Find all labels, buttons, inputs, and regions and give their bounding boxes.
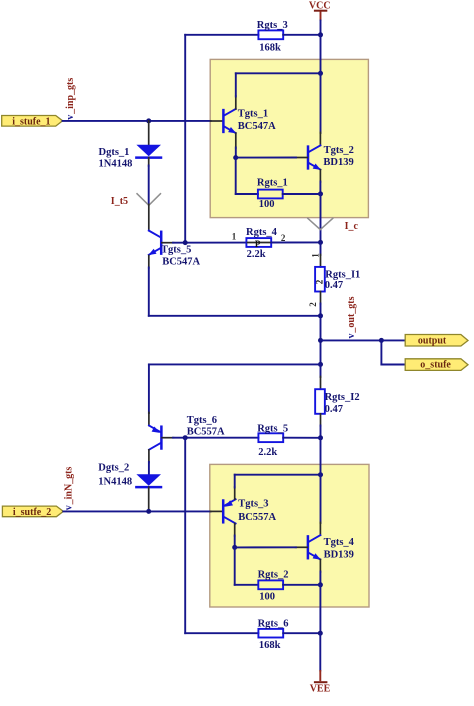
net label v_out_gts: [346, 296, 357, 338]
svg-text:1N4148: 1N4148: [98, 476, 132, 487]
wire: [149, 363, 321, 365]
diode Dgts_1: [99, 121, 162, 170]
svg-text:100: 100: [259, 592, 275, 603]
wire: [235, 133, 237, 148]
wire: [149, 315, 321, 317]
port output: [405, 335, 468, 347]
resistor Rgts_I2: [315, 389, 359, 415]
svg-text:Dgts_2: Dgts_2: [98, 463, 129, 474]
node Rgts_5 tee: [318, 435, 323, 440]
wire: [185, 34, 258, 36]
svg-text:i_stufe_1: i_stufe_1: [12, 116, 50, 127]
svg-text:Rgts_I2: Rgts_I2: [325, 392, 360, 403]
svg-text:BC547A: BC547A: [238, 121, 276, 132]
node input1: [146, 118, 151, 123]
wire: [184, 35, 186, 243]
wire: [148, 205, 150, 231]
wire: [148, 450, 150, 463]
svg-text:Rgts_5: Rgts_5: [257, 423, 288, 434]
svg-text:v: v: [64, 505, 75, 510]
svg-text:BC547A: BC547A: [162, 256, 200, 267]
wire: [320, 304, 322, 316]
highlight box (lower output pair): [210, 464, 369, 607]
node Tgts_4 emitter: [318, 582, 323, 587]
svg-text:Rgts_2: Rgts_2: [258, 569, 289, 580]
svg-text:I_c: I_c: [345, 221, 359, 232]
port i_sutfe_2: [2, 506, 63, 518]
wire: [320, 255, 322, 267]
pin 1 Rgts_I1: [311, 253, 321, 258]
wire: [320, 316, 322, 365]
svg-text:P: P: [255, 239, 261, 249]
resistor Rgts_1: [257, 177, 288, 210]
svg-text:Rgts_6: Rgts_6: [258, 618, 289, 629]
port o_stufe: [405, 359, 468, 371]
node Tgts_1 emitter: [233, 155, 238, 160]
node box2 top: [318, 472, 323, 477]
wire: [320, 73, 322, 133]
node Rgts_I1 bottom: [318, 313, 323, 318]
svg-text:o_stufe: o_stufe: [420, 360, 451, 371]
probe I_t5: [111, 193, 161, 207]
node Tgts_6 base: [183, 435, 188, 440]
wire: [63, 120, 211, 122]
power symbol VEE: [310, 670, 331, 694]
wire: [148, 462, 150, 474]
svg-text:Dgts_1: Dgts_1: [99, 147, 130, 158]
wire: [319, 523, 321, 536]
svg-text:Rgts_3: Rgts_3: [257, 20, 288, 31]
svg-text:0.47: 0.47: [325, 404, 343, 415]
transistor Q Tgts_2 (BD139): [296, 145, 354, 170]
wire: [148, 413, 150, 426]
resistor Rgts_5: [257, 423, 288, 458]
svg-text:168k: 168k: [259, 640, 281, 651]
node VCC rail: [318, 32, 323, 37]
svg-text:v: v: [65, 115, 76, 120]
svg-text:VEE: VEE: [310, 683, 331, 694]
wire: [320, 414, 322, 426]
transistor Q Tgts_4 (BD139): [296, 535, 355, 560]
svg-text:Tgts_3: Tgts_3: [238, 499, 268, 510]
port i_stufe_1: [2, 116, 63, 128]
wire: [236, 72, 321, 74]
svg-text:Tgts_1: Tgts_1: [238, 108, 268, 119]
svg-text:BD139: BD139: [323, 157, 353, 168]
wire: [148, 166, 150, 205]
highlight box (upper output pair): [210, 59, 368, 217]
wire: [234, 487, 236, 499]
svg-text:100: 100: [259, 199, 275, 210]
svg-text:VCC: VCC: [309, 0, 331, 11]
svg-text:_inp_gts: _inp_gts: [65, 78, 76, 115]
wire: [320, 438, 322, 475]
svg-text:output: output: [418, 336, 447, 347]
svg-text:2.2k: 2.2k: [258, 447, 277, 458]
svg-text:I_t5: I_t5: [111, 196, 128, 207]
wire: [148, 256, 150, 268]
wire: [381, 364, 405, 366]
wire: [320, 364, 322, 377]
svg-text:0.47: 0.47: [325, 280, 343, 291]
svg-text:_inN_gts: _inN_gts: [64, 467, 75, 506]
wire: [319, 170, 321, 182]
svg-text:v: v: [346, 334, 357, 339]
node input2: [146, 509, 151, 514]
transistor Q Tgts_3 (BC557A): [223, 499, 276, 524]
wire: [283, 437, 320, 439]
svg-text:Tgts_6: Tgts_6: [187, 415, 217, 426]
net label v_inp_gts: [65, 78, 76, 120]
svg-text:2.2k: 2.2k: [247, 249, 266, 260]
wire: [320, 292, 322, 305]
wire: [236, 157, 296, 159]
wire: [236, 193, 258, 195]
wire: [185, 632, 258, 634]
svg-text:2: 2: [281, 233, 286, 243]
wire: [235, 584, 258, 586]
wire: [319, 572, 321, 585]
wire: [173, 437, 258, 439]
svg-text:Tgts_4: Tgts_4: [324, 537, 355, 548]
wire: [319, 585, 321, 633]
wire: [173, 242, 246, 244]
svg-text:i_sutfe_2: i_sutfe_2: [13, 507, 51, 518]
net label v_inN_gts: [64, 467, 75, 511]
resistor Rgts_2: [258, 569, 289, 602]
node Tgts_2 emitter: [318, 191, 323, 196]
svg-text:1: 1: [311, 253, 321, 258]
resistor Rgts_I1: [314, 267, 360, 292]
wire: [235, 158, 237, 194]
node Tgts_5 base: [183, 240, 188, 245]
transistor Q Tgts_5 (BC547A): [148, 231, 200, 268]
transistor Q Tgts_1 (BC547A): [223, 108, 276, 133]
transistor Q Tgts_6 (BC557A): [149, 415, 225, 450]
wire: [319, 182, 321, 194]
wire: [320, 426, 322, 438]
wire: [320, 475, 322, 523]
wire: [319, 133, 321, 146]
wire: [381, 339, 405, 341]
node box1 top: [318, 71, 323, 76]
pin 2 Rgts_I1: [308, 302, 318, 307]
wire: [148, 268, 150, 316]
svg-text:2: 2: [314, 279, 324, 284]
wire: [319, 560, 321, 572]
node Tgts_3 collector: [232, 545, 237, 550]
svg-text:1N4148: 1N4148: [99, 159, 133, 170]
wire: [234, 475, 236, 488]
wire: [283, 584, 320, 586]
svg-text:Tgts_5: Tgts_5: [161, 245, 191, 256]
svg-text:2: 2: [308, 302, 318, 307]
wire: [380, 340, 382, 364]
node left-branch tee: [318, 362, 323, 367]
node output tee: [318, 338, 323, 343]
wire: [184, 438, 186, 634]
wire: [320, 377, 322, 390]
node output branch: [379, 338, 384, 343]
wire: [148, 364, 150, 413]
wire: [211, 510, 223, 512]
svg-text:Rgts_1: Rgts_1: [257, 177, 288, 188]
wire: [234, 536, 236, 548]
wire: [283, 34, 320, 36]
resistor Rgts_3: [257, 20, 288, 53]
node VEE rail: [318, 631, 323, 636]
wire: [271, 241, 320, 243]
diode Dgts_2: [98, 463, 161, 512]
wire: [321, 339, 382, 341]
probe I_c: [307, 218, 358, 232]
resistor Rgts_6: [258, 618, 289, 651]
svg-text:BC557A: BC557A: [238, 512, 276, 523]
svg-text:168k: 168k: [259, 42, 281, 53]
svg-text:Rgts_I1: Rgts_I1: [325, 269, 360, 280]
wire: [235, 546, 296, 548]
svg-text:Tgts_2: Tgts_2: [324, 145, 354, 156]
svg-text:_out_gts: _out_gts: [346, 296, 357, 333]
wire: [320, 21, 322, 35]
wire: [283, 632, 320, 634]
wire: [234, 547, 236, 584]
wire: [211, 120, 223, 122]
wire: [319, 633, 321, 670]
wire: [235, 474, 321, 476]
svg-text:Rgts_4: Rgts_4: [246, 227, 278, 238]
wire: [283, 193, 321, 195]
svg-text:BC557A: BC557A: [187, 427, 225, 438]
svg-text:BD139: BD139: [324, 550, 354, 561]
wire: [320, 242, 322, 255]
wire: [320, 194, 322, 243]
wire: [63, 510, 210, 512]
node Rgts_4/rail: [318, 240, 323, 245]
wire: [235, 73, 237, 96]
svg-text:1: 1: [232, 231, 237, 241]
wire: [235, 96, 237, 109]
wire: [320, 35, 322, 74]
wire: [234, 524, 236, 537]
resistor Rgts_4: [232, 227, 286, 260]
wire: [235, 148, 237, 158]
power symbol VCC: [309, 0, 331, 21]
